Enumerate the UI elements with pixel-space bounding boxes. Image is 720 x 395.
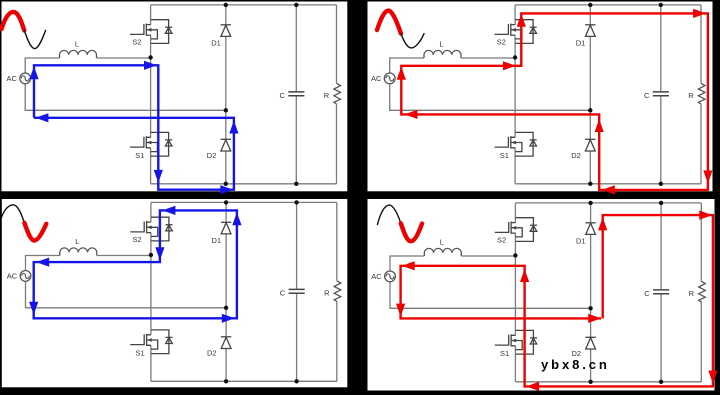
svg-text:ybx8.cn: ybx8.cn: [541, 357, 610, 372]
